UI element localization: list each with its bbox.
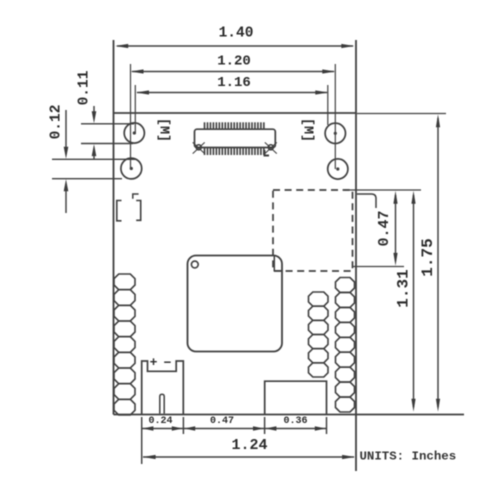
svg-text:1.24: 1.24 — [231, 437, 267, 454]
svg-text:1.31: 1.31 — [395, 269, 413, 307]
svg-text:1.40: 1.40 — [219, 26, 254, 42]
svg-text:[M]: [M] — [156, 118, 171, 142]
svg-text:1.75: 1.75 — [419, 238, 437, 276]
svg-text:+: + — [150, 355, 158, 370]
svg-text:0.11: 0.11 — [77, 70, 93, 105]
svg-text:0.12: 0.12 — [49, 105, 65, 140]
svg-text:0.47: 0.47 — [376, 210, 393, 246]
svg-text:0.36: 0.36 — [283, 416, 307, 427]
svg-text:0.47: 0.47 — [210, 416, 234, 427]
svg-text:UNITS: Inches: UNITS: Inches — [360, 450, 457, 464]
svg-text:0.24: 0.24 — [148, 416, 172, 427]
svg-text:1.20: 1.20 — [217, 54, 251, 70]
svg-text:−: − — [164, 356, 172, 371]
svg-text:1.16: 1.16 — [217, 75, 251, 91]
svg-text:[M]: [M] — [300, 118, 315, 142]
